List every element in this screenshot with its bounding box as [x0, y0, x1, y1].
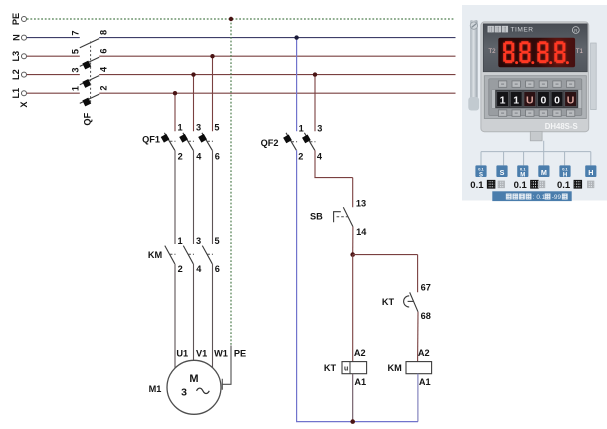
svg-text:4: 4	[196, 264, 202, 274]
svg-text:0: 0	[554, 94, 560, 106]
svg-text:2: 2	[178, 151, 183, 161]
svg-text:A2: A2	[354, 348, 366, 358]
svg-text:KT: KT	[382, 297, 395, 307]
svg-text:DH48S-S: DH48S-S	[545, 122, 578, 131]
svg-text:PE: PE	[234, 349, 246, 359]
svg-text:-99: -99	[552, 194, 562, 201]
svg-text:1: 1	[513, 94, 519, 106]
svg-text:4: 4	[98, 66, 108, 72]
svg-text:5: 5	[71, 49, 81, 54]
svg-text:A2: A2	[418, 348, 430, 358]
svg-text:QF1: QF1	[142, 134, 160, 144]
svg-text:KM: KM	[387, 363, 402, 373]
svg-text:T1: T1	[576, 48, 584, 55]
svg-text:N: N	[12, 34, 22, 41]
svg-text:0.1: 0.1	[470, 180, 484, 191]
svg-text:S: S	[479, 173, 483, 179]
svg-text:3: 3	[181, 386, 187, 398]
svg-text:W1: W1	[214, 349, 228, 359]
svg-text:M: M	[541, 168, 547, 177]
svg-text:PE: PE	[11, 13, 21, 25]
svg-text:V1: V1	[196, 349, 207, 359]
svg-text:2: 2	[178, 264, 183, 274]
svg-text:1: 1	[177, 236, 182, 246]
svg-text:H: H	[588, 168, 593, 177]
svg-text:SB: SB	[310, 212, 323, 222]
svg-text:0.1: 0.1	[514, 180, 528, 191]
svg-text:3: 3	[317, 123, 322, 133]
svg-text:1: 1	[177, 123, 182, 133]
svg-text:KT: KT	[324, 363, 337, 373]
svg-text:0: 0	[540, 94, 546, 106]
svg-text:: 0.1: : 0.1	[533, 194, 546, 201]
svg-text:L1: L1	[11, 88, 21, 99]
svg-text:4: 4	[196, 151, 202, 161]
svg-text:6: 6	[215, 151, 220, 161]
svg-text:0.1: 0.1	[478, 167, 484, 172]
svg-text:3: 3	[71, 67, 81, 72]
svg-text:0.1: 0.1	[557, 180, 571, 191]
svg-text:68: 68	[421, 311, 431, 321]
svg-text:QF: QF	[82, 112, 92, 125]
svg-text:A1: A1	[419, 377, 431, 387]
svg-text:u: u	[344, 366, 348, 373]
svg-text:M1: M1	[149, 384, 162, 394]
svg-text:U1: U1	[176, 349, 188, 359]
svg-text:5: 5	[214, 123, 219, 133]
svg-text:67: 67	[421, 283, 431, 293]
svg-text:3: 3	[196, 236, 201, 246]
svg-text:X: X	[19, 101, 29, 108]
svg-text:5: 5	[214, 236, 219, 246]
svg-text:0.1: 0.1	[562, 167, 568, 172]
svg-text:M: M	[189, 373, 198, 385]
svg-text:A1: A1	[354, 377, 366, 387]
svg-text:0.1: 0.1	[520, 167, 526, 172]
svg-text:KM: KM	[148, 250, 163, 260]
svg-text:1: 1	[71, 86, 81, 91]
svg-text:L2: L2	[11, 69, 21, 80]
svg-text:QF2: QF2	[261, 138, 279, 148]
svg-text:H: H	[563, 173, 567, 179]
svg-text:4: 4	[317, 152, 323, 162]
svg-text:TIMER: TIMER	[511, 27, 534, 34]
svg-text:7: 7	[71, 30, 81, 35]
svg-text:S: S	[500, 168, 505, 177]
svg-text:6: 6	[215, 264, 220, 274]
svg-text:8: 8	[98, 30, 108, 35]
svg-text:6: 6	[98, 48, 108, 53]
svg-text:M: M	[520, 173, 525, 179]
svg-text:2: 2	[298, 152, 303, 162]
svg-text:2: 2	[98, 85, 108, 90]
svg-text:T2: T2	[488, 48, 496, 55]
svg-text:1: 1	[500, 94, 506, 106]
svg-text:3: 3	[196, 123, 201, 133]
svg-text:13: 13	[356, 199, 366, 209]
svg-text:U: U	[526, 94, 534, 106]
svg-text:U: U	[567, 94, 575, 106]
svg-text:L3: L3	[11, 51, 21, 62]
svg-text:14: 14	[356, 227, 367, 237]
svg-text:1: 1	[299, 123, 304, 133]
